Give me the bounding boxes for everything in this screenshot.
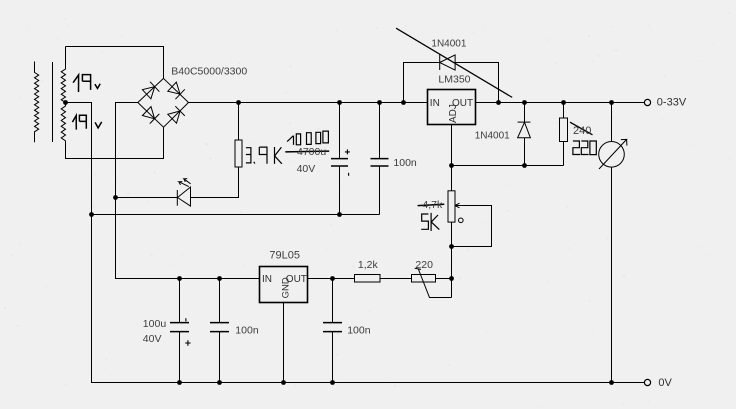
svg-text:0V: 0V xyxy=(658,377,672,389)
svg-text:IN: IN xyxy=(262,274,272,285)
svg-text:ADJ: ADJ xyxy=(448,104,459,123)
svg-text:LM350: LM350 xyxy=(438,73,470,85)
svg-text:4700u: 4700u xyxy=(297,146,326,158)
svg-text:79L05: 79L05 xyxy=(269,250,300,262)
svg-text:IN: IN xyxy=(430,98,440,109)
svg-text:B40C5000/3300: B40C5000/3300 xyxy=(171,66,247,78)
svg-text:GND: GND xyxy=(281,277,292,298)
svg-text:100n: 100n xyxy=(347,325,371,337)
svg-text:100n: 100n xyxy=(235,325,259,337)
svg-text:220: 220 xyxy=(415,259,433,271)
svg-text:1,2k: 1,2k xyxy=(358,259,379,271)
svg-text:40V: 40V xyxy=(143,333,162,345)
svg-text:1N4001: 1N4001 xyxy=(475,130,510,141)
svg-text:240: 240 xyxy=(573,125,591,137)
svg-text:40V: 40V xyxy=(297,163,316,175)
svg-text:0-33V: 0-33V xyxy=(657,97,687,109)
svg-text:4,7k: 4,7k xyxy=(422,199,443,211)
svg-text:100n: 100n xyxy=(393,157,417,169)
svg-text:1N4001: 1N4001 xyxy=(431,38,466,49)
svg-text:100u: 100u xyxy=(143,318,167,330)
